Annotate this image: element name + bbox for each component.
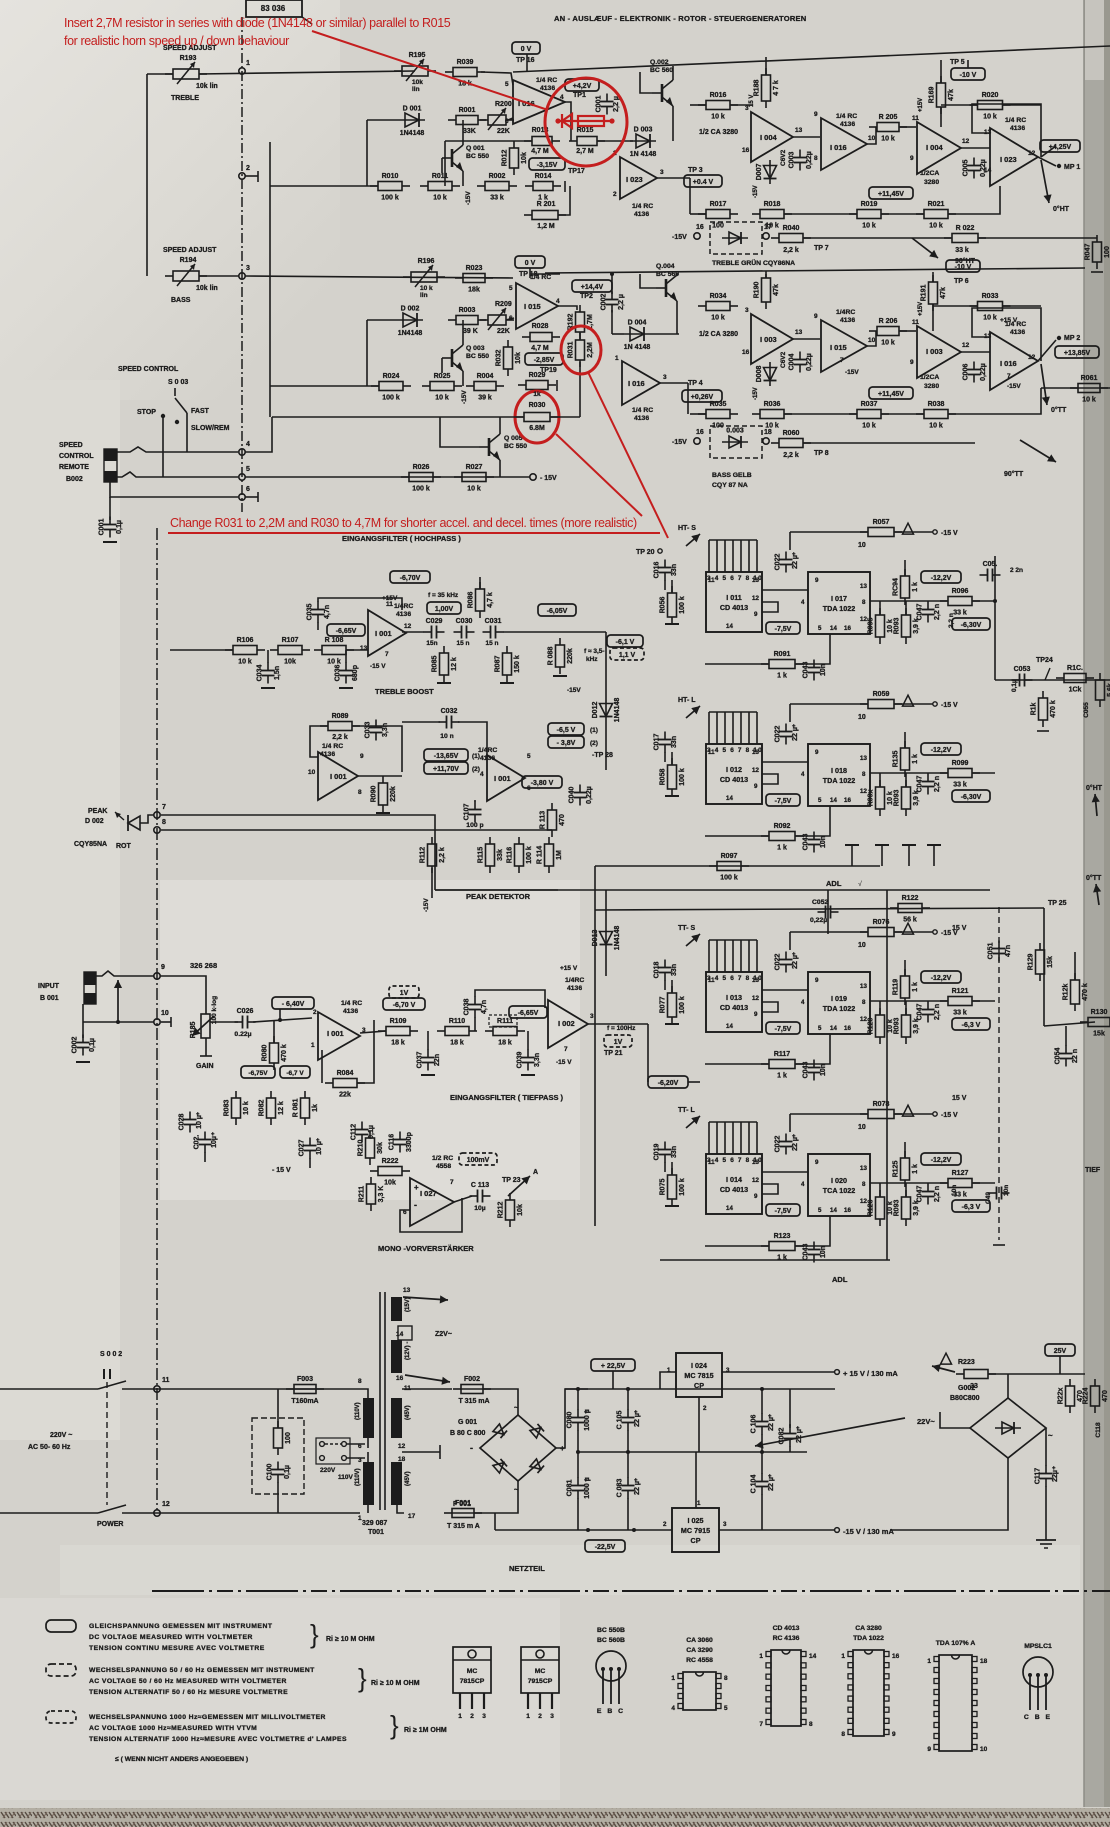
svg-text:R116: R116 — [507, 847, 514, 863]
TT-L ic link — [762, 1171, 808, 1173]
capacitor C107 — [464, 802, 482, 823]
svg-text:MC: MC — [467, 1668, 478, 1675]
svg-text:C016: C016 — [654, 562, 661, 579]
svg-text:220k: 220k — [567, 648, 574, 664]
svg-text:10 k: 10 k — [711, 114, 725, 121]
svg-text:10 k: 10 k — [881, 136, 895, 143]
svg-text:AC VOLTAGE 50 / 60 Hz MEASU: AC VOLTAGE 50 / 60 Hz MEASURED WITH VOLT… — [89, 1678, 287, 1685]
svg-text:470: 470 — [1102, 1390, 1109, 1402]
svg-text:39 K: 39 K — [463, 328, 478, 335]
Q003 emitter down — [462, 371, 464, 386]
svg-text:2,2 µ: 2,2 µ — [613, 96, 620, 112]
svg-text:-6,65V: -6,65V — [336, 628, 357, 635]
svg-text:for realistic horn speed up /: for realistic horn speed up / down behav… — [64, 34, 289, 48]
capacitor HT-S 10n — [803, 660, 828, 681]
svg-text:14: 14 — [396, 1331, 404, 1338]
svg-text:Q 003: Q 003 — [466, 345, 485, 352]
resistor R018 — [752, 201, 792, 230]
svg-text:R038: R038 — [928, 401, 945, 408]
svg-text:9: 9 — [754, 1011, 758, 1018]
svg-text:47n: 47n — [1005, 945, 1012, 957]
svg-text:16: 16 — [396, 1375, 404, 1382]
svg-text:7: 7 — [564, 1046, 568, 1053]
I027 fb — [400, 1198, 462, 1232]
svg-text:220V: 220V — [320, 1467, 336, 1474]
svg-text:9: 9 — [815, 749, 819, 756]
TP1 voltage box — [565, 79, 599, 91]
svg-text:12: 12 — [1028, 354, 1036, 361]
svg-text:MONO -VORVERSTÄRKER: MONO -VORVERSTÄRKER — [378, 1244, 474, 1253]
svg-text:1: 1 — [667, 1367, 671, 1374]
svg-text:33 k: 33 k — [490, 195, 504, 202]
adl ground 2 — [875, 844, 889, 846]
HT-L channel arrow — [686, 706, 700, 718]
jack B002 sleeve — [104, 449, 117, 461]
svg-text:1: 1 — [927, 1658, 931, 1665]
rail B right — [719, 1529, 835, 1531]
svg-text:1/2 RC: 1/2 RC — [432, 1155, 453, 1162]
transistor Q004 — [656, 275, 677, 301]
svg-text:326 268: 326 268 — [190, 961, 217, 970]
resistor R034 — [698, 293, 738, 322]
svg-text:C040: C040 — [569, 787, 576, 804]
svg-text:TREBLE BOOST: TREBLE BOOST — [375, 687, 434, 696]
svg-text:R040: R040 — [783, 225, 800, 232]
voltage -6.65V box tp — [509, 1006, 547, 1018]
svg-text:100: 100 — [1104, 246, 1110, 258]
capacitor C028 — [179, 1112, 204, 1133]
TT-S r100k gnd — [665, 1023, 679, 1025]
bridge feed bottom — [474, 1481, 518, 1513]
svg-text:8: 8 — [862, 599, 866, 606]
bridge diode 4 — [530, 1459, 544, 1473]
node10 stub — [161, 1021, 171, 1023]
capacitor C082 — [779, 1426, 804, 1447]
svg-text:R209: R209 — [495, 301, 512, 308]
capacitor C105 — [617, 1410, 642, 1431]
red pointer from R031 circle — [588, 372, 668, 538]
resistor R010 — [370, 173, 410, 202]
resistor R037 — [849, 401, 889, 430]
svg-text:-6,30V: -6,30V — [961, 794, 982, 801]
row214 — [690, 213, 706, 215]
switch gang dashed — [106, 1382, 108, 1505]
R191 top stub — [932, 272, 934, 282]
svg-text:CD 4013: CD 4013 — [773, 1625, 800, 1632]
svg-text:12: 12 — [752, 1177, 759, 1184]
svg-text:G002: G002 — [958, 1385, 975, 1392]
svg-text:10k: 10k — [284, 659, 296, 666]
svg-text:22 µ: 22 µ — [634, 1413, 641, 1427]
c027 bottom — [309, 1158, 311, 1168]
svg-text:R097: R097 — [721, 853, 738, 860]
legend dashed voltage box 50hz — [46, 1664, 76, 1676]
svg-text:ROT: ROT — [116, 843, 132, 850]
resistor R012 — [502, 141, 529, 175]
svg-text:R019: R019 — [861, 201, 878, 208]
cap column x762c — [761, 1494, 763, 1530]
op-amp I004 second — [917, 122, 961, 174]
cap column x762 — [761, 1389, 763, 1414]
svg-text:R096: R096 — [952, 588, 969, 595]
row417 wire from R030 — [551, 416, 580, 418]
resistor HT-L 10k — [868, 780, 895, 816]
R031 bottom wire — [579, 362, 581, 417]
svg-text:1/4RC: 1/4RC — [836, 309, 855, 316]
HT-S verticals2 — [905, 601, 907, 615]
svg-text:-12,2V: -12,2V — [931, 975, 952, 982]
wire R200 to I016 pin6 — [508, 118, 513, 120]
svg-text:5: 5 — [818, 625, 822, 632]
svg-text:C039: C039 — [517, 1052, 524, 1069]
resistor R090 — [371, 776, 398, 812]
svg-text:18 k: 18 k — [498, 1040, 512, 1047]
C039 ground — [521, 1074, 535, 1076]
svg-text:R099: R099 — [952, 760, 969, 767]
svg-text:1: 1 — [311, 1042, 315, 1049]
svg-text:14: 14 — [830, 1025, 837, 1032]
svg-text:4136: 4136 — [343, 1008, 358, 1015]
resistor R143 strip — [1096, 673, 1110, 707]
svg-text:R086: R086 — [468, 592, 475, 609]
svg-text:CP: CP — [694, 1381, 704, 1390]
junction dot input — [116, 1020, 120, 1024]
resistor TT-S 10k — [868, 1008, 895, 1044]
row414b — [784, 413, 857, 415]
fuse F001 inner line — [452, 1512, 474, 1514]
svg-text:I 003: I 003 — [760, 335, 777, 344]
Q001 emitter down — [462, 171, 464, 186]
svg-text:+15 V: +15 V — [1000, 317, 1018, 324]
svg-text:MPSLC1: MPSLC1 — [1024, 1643, 1052, 1650]
svg-text:D 002: D 002 — [401, 306, 420, 313]
TT-S input wire — [664, 980, 666, 990]
R142 bottom bar — [1037, 730, 1049, 732]
TT-S ic link2 — [762, 1002, 778, 1012]
resistor R097 — [709, 853, 749, 882]
capacitor C030 — [454, 618, 475, 639]
C038 bottom — [474, 1017, 476, 1031]
svg-text:8: 8 — [814, 155, 818, 162]
svg-text:33 k: 33 k — [953, 610, 967, 617]
svg-text:R033: R033 — [982, 293, 999, 300]
resistor R047 — [1085, 235, 1110, 269]
resistor TT-S 100k — [660, 986, 687, 1024]
TT-S verticals2 — [905, 1001, 907, 1015]
svg-text:1/4 RC: 1/4 RC — [341, 1000, 362, 1007]
svg-text:- 15V: - 15V — [540, 475, 557, 482]
svg-text:C026: C026 — [237, 1008, 254, 1015]
svg-text:D 003: D 003 — [634, 127, 653, 134]
svg-text:4136: 4136 — [1010, 125, 1025, 132]
TT-L verticals — [879, 1183, 881, 1197]
svg-text:-15V: -15V — [753, 185, 759, 198]
op-amp I003 first — [751, 314, 793, 364]
svg-text:-7,5V: -7,5V — [775, 1208, 792, 1215]
IC I025 MC7915 — [663, 1500, 727, 1552]
svg-text:15n: 15n — [426, 640, 437, 647]
svg-text:4136: 4136 — [634, 211, 649, 218]
lighter middle patch — [160, 880, 580, 1200]
svg-text:100 k: 100 k — [526, 846, 533, 864]
S003 lever — [175, 398, 187, 413]
svg-text:TP 8: TP 8 — [814, 450, 829, 457]
potentiometer R200 — [480, 108, 514, 130]
svg-text:4136: 4136 — [840, 121, 855, 128]
led wires — [140, 815, 154, 823]
svg-text:10: 10 — [308, 769, 316, 776]
resistor R020 — [970, 92, 1011, 121]
svg-text:1/4 RC: 1/4 RC — [322, 743, 343, 750]
svg-text:9: 9 — [910, 155, 914, 162]
zener D007 — [756, 160, 777, 184]
svg-text:-7,5V: -7,5V — [775, 626, 792, 633]
D012 top — [605, 632, 607, 698]
svg-text:I 001: I 001 — [327, 1029, 344, 1038]
svg-text:C022: C022 — [775, 554, 782, 571]
cap column x805 — [789, 1389, 791, 1426]
svg-text:TP 6: TP 6 — [954, 278, 969, 285]
voltage +11.70V box — [424, 762, 468, 774]
svg-text:13: 13 — [752, 749, 759, 756]
svg-text:0°TT: 0°TT — [1051, 406, 1067, 414]
svg-text:100mV: 100mV — [467, 1157, 490, 1164]
svg-text:I 023: I 023 — [1000, 155, 1017, 164]
svg-text:C004: C004 — [789, 354, 796, 371]
TP20 node — [658, 549, 662, 553]
svg-text:R082: R082 — [259, 1100, 266, 1117]
svg-text:WECHSELSPANNUNG 50 / 60 Hz G: WECHSELSPANNUNG 50 / 60 Hz GEMESSEN MIT … — [89, 1667, 315, 1674]
transformer secondary winding low2 — [391, 1462, 402, 1505]
svg-text:C003: C003 — [789, 152, 796, 169]
row650 left — [170, 649, 233, 651]
svg-text:4,7n: 4,7n — [324, 605, 331, 619]
cap column x805b — [789, 1446, 791, 1452]
svg-text:1: 1 — [458, 1713, 462, 1720]
row143 wire — [444, 141, 446, 186]
svg-text:6.8M: 6.8M — [529, 425, 545, 432]
svg-text:(45V): (45V) — [405, 1471, 411, 1486]
C032 left wire — [402, 721, 440, 723]
svg-text:TT- S: TT- S — [678, 925, 695, 932]
capacitor C002 — [601, 292, 626, 313]
svg-text:TENSION ALTERNATIF 50 / 60 H: TENSION ALTERNATIF 50 / 60 Hz MESURE VOL… — [89, 1689, 288, 1696]
svg-text:18: 18 — [980, 1658, 988, 1665]
svg-text:-15V: -15V — [461, 390, 468, 404]
op-amp I016 row2 — [622, 361, 660, 405]
svg-text:R111: R111 — [497, 1018, 513, 1025]
resistor R003 — [448, 307, 486, 325]
HT-S rtop drop — [789, 532, 791, 550]
resistor R031 — [568, 333, 595, 367]
svg-text:Z2V~: Z2V~ — [435, 1331, 452, 1338]
svg-text:4: 4 — [560, 94, 564, 101]
transformer secondary winding low1 — [391, 1398, 402, 1438]
svg-text:0,1µ: 0,1µ — [116, 520, 123, 534]
voltage selector links — [320, 1442, 325, 1447]
svg-text:11: 11 — [386, 601, 393, 608]
svg-text:C047: C047 — [917, 1004, 924, 1021]
svg-text:470 k: 470 k — [1050, 700, 1057, 718]
svg-text:~: ~ — [1048, 1431, 1053, 1440]
svg-text:R110: R110 — [449, 1018, 465, 1025]
HT-S ic link — [762, 589, 808, 591]
svg-text:C055: C055 — [1083, 702, 1090, 718]
D013 top wire — [605, 890, 607, 926]
Q005 emitter to row — [499, 460, 501, 477]
TT-L 1k top — [904, 1142, 906, 1158]
svg-text:C053: C053 — [1014, 666, 1031, 673]
TT-L ic link2 — [762, 1184, 778, 1194]
svg-text:2: 2 — [663, 1521, 667, 1528]
svg-text:4: 4 — [556, 298, 560, 305]
svg-text:R120: R120 — [868, 1018, 875, 1035]
svg-text:13: 13 — [752, 1159, 759, 1166]
svg-text:TP 20: TP 20 — [636, 549, 655, 556]
voltage +14.4V box — [572, 280, 612, 292]
svg-text:-6,65V: -6,65V — [518, 1010, 539, 1017]
diode D001 — [399, 106, 425, 138]
svg-text:1/2 CA 3280: 1/2 CA 3280 — [699, 129, 738, 136]
svg-text:14: 14 — [830, 625, 837, 632]
resistor R019 — [849, 201, 889, 230]
HT-S r100k top — [671, 580, 673, 592]
svg-text:R056: R056 — [660, 597, 667, 614]
svg-text:100 k: 100 k — [679, 596, 686, 614]
svg-text:47k: 47k — [940, 287, 947, 299]
svg-text:1N4148: 1N4148 — [398, 330, 423, 337]
resistor R024 — [371, 373, 411, 402]
svg-text:CA 3290: CA 3290 — [686, 1647, 713, 1654]
voltage +13.85V box — [1055, 346, 1099, 358]
svg-text:R212: R212 — [498, 1202, 505, 1219]
resistor R083 — [224, 1091, 251, 1125]
svg-text:TCA 1022: TCA 1022 — [823, 1186, 856, 1195]
svg-text:2: 2 — [613, 191, 617, 198]
svg-text:C080: C080 — [567, 1412, 574, 1429]
package CD4013/RC4136 DIP14 — [759, 1625, 816, 1728]
resistor R109 — [378, 1018, 418, 1047]
svg-text:R 205: R 205 — [879, 114, 898, 121]
capacitor HT-L 22u — [775, 724, 800, 745]
svg-text:R123: R123 — [774, 1233, 791, 1240]
package TDA1074A DIP18 — [927, 1640, 987, 1753]
HT-L 1k top — [904, 732, 906, 748]
svg-text:R015: R015 — [577, 127, 594, 134]
svg-text:R 108: R 108 — [325, 637, 344, 644]
svg-text:10n: 10n — [820, 1246, 827, 1258]
capacitor C029 — [424, 618, 445, 639]
svg-text:1k: 1k — [533, 391, 541, 398]
svg-text:1/4 RC: 1/4 RC — [530, 274, 551, 281]
svg-text:C017: C017 — [654, 734, 661, 751]
svg-text:-15V: -15V — [672, 439, 687, 446]
svg-text:9: 9 — [754, 611, 758, 618]
fuse F002 — [453, 1376, 491, 1394]
rail junction dots — [586, 1528, 590, 1532]
svg-text:10 k: 10 k — [983, 114, 997, 121]
svg-text:E B C: E B C — [597, 1708, 625, 1715]
svg-text:2,2 n: 2,2 n — [948, 613, 955, 628]
svg-text:R22x: R22x — [1058, 1388, 1065, 1405]
svg-text:SLOW/REM: SLOW/REM — [191, 425, 230, 432]
svg-text:R003: R003 — [459, 307, 476, 314]
peak det rail — [435, 889, 558, 891]
capacitor C049 — [989, 1187, 1010, 1200]
op-amp I001 peak1 — [318, 752, 358, 800]
svg-text:F 001: F 001 — [453, 1501, 471, 1508]
svg-text:F002: F002 — [464, 1376, 480, 1383]
svg-text:GAIN: GAIN — [196, 1063, 214, 1070]
resistor R141 — [1056, 665, 1094, 694]
row214b — [784, 213, 857, 215]
snubber top — [277, 1389, 279, 1428]
svg-text:C005: C005 — [963, 160, 970, 177]
svg-text:R085: R085 — [432, 656, 439, 673]
jack B001 outline — [84, 972, 96, 1004]
chain2 bottom vertical — [687, 383, 689, 414]
capacitor TT-L 22u — [775, 1134, 800, 1155]
svg-text:I 001: I 001 — [330, 772, 347, 781]
svg-text:R057: R057 — [873, 519, 890, 526]
svg-text:100 p: 100 p — [466, 822, 483, 829]
S003 pole wire — [186, 413, 188, 452]
svg-text:1/4 RC: 1/4 RC — [836, 113, 857, 120]
svg-text:5: 5 — [818, 797, 822, 804]
package CA3280/TDA1022 DIP16 — [841, 1625, 899, 1738]
C117 down — [1045, 1486, 1047, 1540]
resistor R114 — [537, 837, 564, 873]
right gray band darker right column — [1104, 0, 1110, 1807]
svg-text:0 V: 0 V — [525, 260, 536, 267]
capacitor C038 — [464, 997, 489, 1018]
testpoint TP6 -10V box — [946, 260, 980, 272]
voltage -7.5V box TT-L — [766, 1204, 800, 1216]
HT-S 1k top — [904, 560, 906, 576]
svg-text:18: 18 — [764, 429, 772, 436]
svg-text:-15V: -15V — [465, 191, 472, 205]
svg-text:1/4RC: 1/4RC — [394, 603, 413, 610]
voltage +22.5V box — [591, 1359, 635, 1371]
svg-text:3280: 3280 — [924, 383, 939, 390]
svg-text:1 k: 1 k — [912, 582, 919, 592]
svg-text:MC: MC — [535, 1668, 546, 1675]
svg-text:1/2CA: 1/2CA — [920, 374, 939, 381]
TT-L rtop drop — [789, 1114, 791, 1132]
svg-text:C081: C081 — [567, 1480, 574, 1497]
svg-text:16: 16 — [844, 1025, 851, 1032]
op-amp I023 first — [620, 157, 657, 199]
capacitor C002 input — [72, 1035, 97, 1056]
svg-text:R093: R093 — [894, 618, 901, 635]
svg-text:R169: R169 — [929, 87, 936, 104]
svg-text:D012: D012 — [592, 702, 599, 719]
op-amp I003 second — [917, 326, 961, 378]
testpoint TP4 box — [682, 390, 722, 402]
svg-text:f = 35 kHz: f = 35 kHz — [428, 592, 459, 599]
svg-text:11: 11 — [708, 749, 715, 756]
svg-text:(110V): (110V) — [355, 1468, 361, 1486]
svg-text:CP: CP — [691, 1536, 701, 1545]
C039 top — [527, 1031, 529, 1050]
svg-text:9: 9 — [161, 964, 165, 971]
svg-text:C054: C054 — [1055, 1048, 1062, 1065]
svg-text:10 k: 10 k — [467, 486, 481, 493]
svg-text:R004: R004 — [477, 373, 494, 380]
voltage +11.45V box row2 — [869, 387, 913, 399]
resistor R082 — [259, 1091, 286, 1125]
mains wire L2 — [122, 1388, 356, 1390]
